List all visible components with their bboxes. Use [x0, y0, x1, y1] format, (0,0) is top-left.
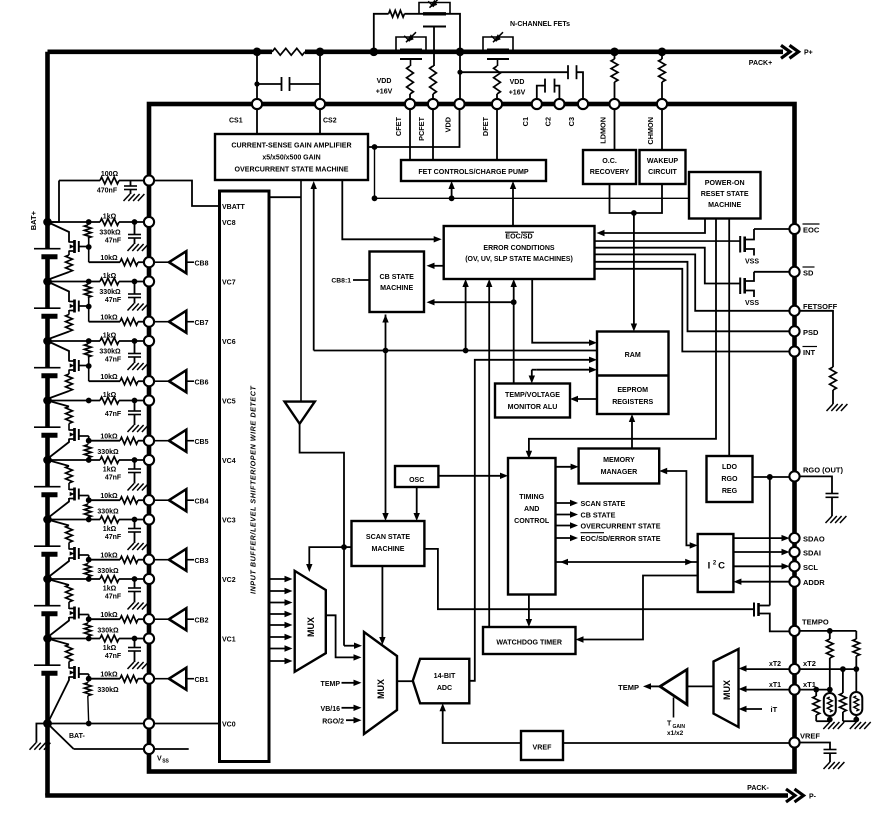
svg-text:VBATT: VBATT — [222, 204, 246, 211]
ground cap cell2 — [128, 603, 149, 610]
svg-text:47nF: 47nF — [105, 411, 122, 418]
wire ADC output — [469, 676, 475, 681]
transistor balance FET cell1 — [69, 666, 89, 679]
wire EOC/SD vertical a — [462, 279, 468, 351]
wire timing output OVERCURRENT STATE — [556, 522, 579, 528]
label 47n cell3 — [105, 534, 122, 541]
wire FET source cell3 — [49, 558, 70, 578]
svg-text:330kΩ: 330kΩ — [97, 509, 119, 516]
label 330k cell7 — [99, 289, 121, 296]
thermistor xT1 — [824, 690, 836, 722]
wire FET1 left to resistor — [404, 13, 423, 15]
label PACK+ — [749, 60, 772, 67]
transistor balance FET cell2 — [69, 607, 89, 620]
wire VDD pin to amp — [368, 109, 460, 147]
pin PSD — [789, 326, 799, 336]
battery cell2 — [34, 606, 61, 614]
svg-text:47nF: 47nF — [105, 297, 122, 304]
transistor balance FET cell6 — [69, 359, 89, 372]
resistor source cell1 — [66, 645, 73, 669]
buffer CB7 triangle — [154, 311, 195, 333]
svg-text:MEMORY: MEMORY — [603, 456, 635, 464]
pin VC0 — [144, 718, 154, 728]
wire CFET pin to fet-controls — [409, 109, 411, 160]
wire CHMON to wakeup — [661, 109, 663, 150]
svg-text:330kΩ: 330kΩ — [97, 687, 119, 694]
svg-text:1kΩ: 1kΩ — [103, 586, 117, 593]
label 47n cell4 — [105, 475, 122, 482]
label P+ — [804, 50, 813, 57]
resistor 330k cell5 — [84, 441, 91, 460]
wire VC4 row — [48, 459, 150, 461]
node junction CS2/rail — [316, 48, 325, 57]
resistor 10k cell8 — [120, 259, 138, 266]
wire TEMP out — [643, 683, 660, 689]
svg-text:+16V: +16V — [509, 90, 526, 97]
label CB6 — [195, 379, 209, 386]
svg-text:SCL: SCL — [803, 563, 818, 572]
node junction VDD/rail — [456, 48, 465, 57]
wire POR to EOC/SD (arrow in) — [597, 219, 706, 237]
svg-text:PACK-: PACK- — [747, 785, 769, 792]
wire amp to EOC/SD — [342, 180, 441, 243]
svg-text:1kΩ: 1kΩ — [103, 392, 117, 399]
mux MUX1 — [295, 571, 326, 672]
wire CB2 row — [89, 618, 149, 620]
pin TEMPO — [789, 626, 799, 636]
wire SD to gate — [595, 248, 741, 284]
svg-text:WAKEUP: WAKEUP — [647, 157, 678, 165]
label C1 (rotated) — [521, 117, 530, 126]
resistor current-sense on PACK+ rail — [272, 48, 305, 55]
svg-text:CIRCUIT: CIRCUIT — [648, 168, 677, 176]
wire TEMP into MUX2 — [342, 680, 362, 686]
ground cap cell3 — [128, 543, 149, 550]
ground cap cell7 — [128, 304, 149, 311]
label BAT- — [69, 733, 85, 740]
wire INT line — [595, 269, 790, 352]
transistor FET3 (DFET) — [483, 32, 513, 66]
capacitor C3 — [460, 65, 583, 104]
resistor CHMON pull-up — [659, 52, 666, 104]
svg-text:VC7: VC7 — [222, 279, 236, 286]
label SD pin — [803, 267, 815, 277]
svg-text:10kΩ: 10kΩ — [100, 493, 118, 500]
wire MUX2 to ADC — [397, 680, 413, 682]
label CB4 — [195, 498, 209, 505]
wire VBATT pin to inner box — [154, 181, 220, 207]
wire scan to MUX2 top — [379, 566, 385, 645]
wire VC3 row — [48, 519, 150, 521]
svg-text:330kΩ: 330kΩ — [99, 349, 121, 356]
resistor xT2 ext — [840, 669, 847, 721]
capacitor 47n cell5 — [128, 401, 141, 426]
buffer CB6 triangle — [154, 370, 195, 392]
resistor LDMON pull-up — [611, 52, 618, 104]
svg-text:CB5: CB5 — [195, 439, 209, 446]
label 47n cell1 — [105, 653, 122, 660]
adc 14-bit ADC — [413, 659, 470, 704]
ground cap cell8 — [128, 244, 149, 251]
resistor source cell8 — [49, 251, 73, 280]
resistor 10k cell6 — [120, 378, 138, 385]
resistor source cell3 — [66, 526, 73, 550]
wire FET drain cell3 — [48, 520, 70, 526]
wire buffer to scan/mux — [300, 424, 362, 649]
svg-text:VC8: VC8 — [222, 220, 236, 227]
svg-text:RECOVERY: RECOVERY — [590, 168, 630, 176]
svg-text:RGO: RGO — [721, 475, 738, 483]
svg-text:MUX: MUX — [376, 679, 386, 699]
label 10k cell3 — [100, 553, 118, 560]
wire DFET pin to fet-controls — [496, 109, 498, 160]
block wakeup circuit — [640, 150, 686, 184]
resistor 10k cell2 — [120, 616, 138, 623]
svg-text:1kΩ: 1kΩ — [103, 645, 117, 652]
label MUX2 (rotated) — [376, 679, 386, 699]
buffer VBATT triangle — [285, 402, 315, 424]
svg-text:1kΩ: 1kΩ — [103, 214, 117, 221]
pin SDAO — [789, 533, 799, 543]
wire EOC/SD to fet-controls — [510, 181, 516, 226]
resistor CFET gate — [407, 66, 414, 104]
svg-text:10kΩ: 10kΩ — [100, 672, 118, 679]
wire VBATT filter branch — [48, 181, 150, 223]
svg-text:ERROR CONDITIONS: ERROR CONDITIONS — [483, 245, 555, 252]
svg-text:EOC/SD: EOC/SD — [505, 233, 532, 241]
pin LDMON — [609, 99, 619, 109]
pin VC5 — [144, 395, 154, 405]
node VC8 dots — [86, 219, 138, 225]
svg-text:CS1: CS1 — [229, 118, 243, 125]
label VC1 inner — [222, 636, 236, 643]
wire CB7 row — [89, 307, 149, 322]
label 330k cell5 — [97, 449, 119, 456]
svg-text:CB STATE: CB STATE — [379, 273, 414, 281]
resistor 330k cell3 — [84, 560, 91, 579]
svg-text:xT1: xT1 — [803, 680, 816, 689]
svg-text:I: I — [708, 561, 711, 572]
svg-text:CB4: CB4 — [195, 498, 209, 505]
wire FET drain cell2 — [48, 579, 70, 585]
svg-text:FETSOFF: FETSOFF — [803, 302, 838, 311]
transistor FET1 charge-pump FET — [419, 0, 450, 26]
wire PACK+ top rail (thick) — [48, 49, 784, 54]
label PSD pin — [803, 328, 819, 337]
pin CB2 — [144, 614, 154, 624]
wire OSC to timing — [438, 473, 508, 479]
resistor 10k cell5 — [120, 437, 138, 444]
svg-text:14-BIT: 14-BIT — [434, 672, 456, 680]
node BAT- junction — [43, 719, 92, 728]
label CB8:1 — [331, 278, 351, 285]
node VC1 dots — [86, 636, 138, 642]
wire OC/wakeup join — [610, 184, 663, 213]
svg-text:RAM: RAM — [625, 351, 641, 359]
wire RAM line4 to ALU — [529, 367, 597, 384]
svg-text:N-CHANNEL FETs: N-CHANNEL FETs — [510, 21, 570, 28]
pin VREF — [789, 737, 799, 747]
resistor 100ohm — [100, 177, 119, 184]
wire POR to LDO — [728, 219, 730, 457]
ground cap cell1 — [128, 662, 149, 669]
wire BAT- to VSS — [48, 724, 189, 750]
wire EOC/SD to RAM line1 — [532, 279, 597, 346]
IC boundary box — [149, 104, 795, 772]
svg-text:47nF: 47nF — [105, 238, 122, 245]
wire EOC/SD vertical c (ALU) — [511, 279, 517, 384]
svg-text:RGO (OUT): RGO (OUT) — [803, 465, 843, 474]
block OSC — [395, 466, 438, 487]
svg-text:LDO: LDO — [722, 463, 737, 471]
svg-text:xT1: xT1 — [769, 682, 781, 689]
battery cell5 — [34, 427, 61, 435]
svg-text:VC1: VC1 — [222, 636, 236, 643]
svg-text:EOC/SD/ERROR STATE: EOC/SD/ERROR STATE — [581, 534, 661, 543]
node gate junction cell5 — [86, 438, 92, 444]
label VC7 inner — [222, 279, 236, 286]
wire timing to memory — [556, 464, 579, 470]
svg-text:SDAO: SDAO — [803, 535, 825, 544]
node gate junction cell8 — [86, 244, 92, 250]
wire VC1 row — [48, 638, 150, 640]
capacitor 47n cell7 — [128, 282, 141, 304]
svg-text:INT: INT — [803, 348, 816, 357]
resistor FET1 gate-drive — [389, 10, 405, 17]
label 1k cell1 — [103, 645, 117, 652]
resistor 10k cell3 — [120, 556, 138, 563]
svg-text:MANAGER: MANAGER — [601, 468, 638, 476]
pin CB7 — [144, 317, 154, 327]
svg-text:47nF: 47nF — [105, 653, 122, 660]
pin VC8 — [144, 217, 154, 227]
label EOC/SD/ERROR STATE — [581, 534, 661, 543]
node BAT junction VC6 — [43, 337, 52, 346]
wire VBATT to amp — [269, 196, 301, 198]
svg-text:CB6: CB6 — [195, 379, 209, 386]
buffer CB4 triangle — [154, 489, 195, 511]
wire VREF to pin — [563, 742, 790, 744]
label CS2 — [323, 118, 337, 125]
capacitor across sense resistor — [254, 77, 320, 91]
pin SD — [789, 267, 799, 277]
battery cell1 — [34, 665, 61, 673]
resistor 1k cell3 — [100, 516, 119, 523]
wire CS1 column — [256, 52, 258, 104]
label VDD (rotated) — [444, 117, 453, 132]
buffer CB5 triangle — [154, 430, 195, 452]
svg-text:PACK+: PACK+ — [749, 60, 772, 67]
resistor source cell2 — [66, 585, 73, 609]
block EOC/SD error conditions — [444, 226, 595, 279]
label DFET (rotated) — [481, 116, 490, 136]
svg-text:O.C.: O.C. — [602, 157, 617, 165]
svg-text:ADC: ADC — [437, 684, 452, 692]
svg-text:VC2: VC2 — [222, 577, 236, 584]
svg-text:iT: iT — [771, 705, 778, 714]
label 10k cell1 — [100, 672, 118, 679]
label SCL pin — [803, 563, 818, 572]
label 1k cell3 — [103, 526, 117, 533]
label TEMP mux2 — [321, 681, 341, 688]
resistor 1k cell7 — [100, 278, 119, 285]
block O.C. recovery — [583, 150, 636, 184]
wire CS2 pin to amp — [319, 109, 321, 134]
label N-CHANNEL FETs — [510, 21, 570, 28]
svg-text:ADDR: ADDR — [803, 578, 825, 587]
svg-text:VDD: VDD — [444, 117, 453, 132]
svg-text:EEPROM: EEPROM — [617, 386, 648, 394]
svg-text:470nF: 470nF — [97, 188, 118, 195]
node BAT junction VC5 — [43, 396, 52, 405]
buffer CB2 triangle — [154, 608, 195, 630]
label input buffer (rotated) — [249, 386, 258, 594]
label 1k cell2 — [103, 586, 117, 593]
battery cell3 — [34, 546, 61, 554]
node VC4 dots — [86, 457, 138, 463]
node BAT junction VC7 — [43, 277, 52, 286]
label iT — [771, 705, 778, 714]
label CB STATE — [581, 510, 616, 519]
resistor source cell5 — [66, 407, 73, 431]
svg-text:SS: SS — [162, 759, 169, 765]
label VC0 inner — [222, 721, 236, 728]
wire FET drain cell7 — [48, 282, 70, 303]
label CHMON (rotated) — [646, 117, 655, 145]
svg-text:TEMP/VOLTAGE: TEMP/VOLTAGE — [505, 391, 560, 399]
label 330k cell8 — [99, 230, 121, 237]
capacitor RGO ext — [799, 476, 838, 516]
resistor 330k cell7 — [84, 284, 91, 307]
pin CS1 — [252, 99, 262, 109]
buffer CB1 triangle — [154, 668, 195, 690]
pin VC2 — [144, 574, 154, 584]
svg-text:10kΩ: 10kΩ — [100, 434, 118, 441]
label 330k cell4 — [97, 509, 119, 516]
label TGAIN — [667, 721, 685, 738]
ground cap cell4 — [128, 484, 149, 491]
resistor source cell6 — [49, 370, 73, 399]
thermistor xT2 — [850, 669, 862, 721]
label P- — [809, 794, 817, 801]
resistor 1k cell2 — [100, 576, 119, 583]
label VB/16 — [321, 706, 341, 713]
wire FET source cell5 — [49, 439, 70, 459]
wire LDMON to OC recovery — [614, 109, 616, 150]
svg-text:VC4: VC4 — [222, 458, 236, 465]
svg-text:TEMP: TEMP — [321, 681, 341, 688]
wire iT to MUX3 — [739, 706, 763, 712]
svg-text:VC6: VC6 — [222, 339, 236, 346]
resistor 330k cell2 — [84, 619, 91, 638]
wire EOC/SD vertical b (watchdog) — [486, 279, 492, 627]
svg-text:CB3: CB3 — [195, 558, 209, 565]
label PCFET (rotated) — [417, 116, 426, 140]
transistor balance FET cell4 — [69, 488, 89, 501]
wire TEMPO ext — [799, 628, 856, 634]
wire resistor to rail — [374, 14, 389, 52]
pin CHMON — [657, 99, 667, 109]
label xT1 pin — [803, 680, 816, 689]
wire POR to TIMING — [526, 219, 716, 459]
wire OSC to scan — [414, 487, 420, 521]
svg-text:DFET: DFET — [481, 116, 490, 136]
wire CB4 row — [89, 499, 149, 501]
pin FETSOFF — [789, 306, 799, 316]
connector P+ double arrow — [781, 45, 799, 58]
wire PACK- bottom rail (thick) — [45, 793, 788, 798]
svg-text:VC5: VC5 — [222, 398, 236, 405]
wire scan bus to RAM line2 — [311, 181, 598, 353]
label 1k cell8 — [103, 214, 117, 221]
svg-text:OSC: OSC — [409, 477, 424, 484]
wire PCFET resistor to pin — [433, 66, 434, 104]
wire VB/16 into MUX2 — [342, 705, 362, 711]
svg-text:CHMON: CHMON — [646, 117, 655, 145]
svg-text:PSD: PSD — [803, 328, 819, 337]
svg-text:BAT+: BAT+ — [29, 210, 38, 230]
wire CB-state lower feed — [427, 299, 517, 305]
label 100ohm — [101, 171, 119, 178]
label 10k cell6 — [100, 374, 118, 381]
block scan state machine — [352, 521, 425, 566]
pin CS2 — [315, 99, 325, 109]
svg-text:SCAN STATE: SCAN STATE — [581, 499, 626, 508]
pin CB1 — [144, 674, 154, 684]
node junction CHMON/rail — [658, 48, 667, 57]
capacitor VREF ext — [799, 743, 836, 763]
node VC7 dots — [86, 279, 138, 285]
wire CS1 pin to amp — [256, 109, 258, 134]
capacitor 470nF — [124, 181, 137, 195]
label 1k cell4 — [103, 467, 117, 474]
pin VC4 — [144, 455, 154, 465]
label PACK- — [747, 785, 769, 792]
svg-text:VC3: VC3 — [222, 517, 236, 524]
node gate junction cell3 — [86, 557, 92, 563]
wire CB8 row — [89, 247, 149, 262]
wire memory-I2C link — [659, 468, 698, 549]
block input buffer/level shifter — [220, 191, 270, 762]
label FETSOFF pin — [803, 302, 838, 311]
wire FET drain cell5 — [48, 401, 70, 407]
svg-text:47nF: 47nF — [105, 594, 122, 601]
wire memory to EEPROM — [629, 414, 635, 449]
pin VC1 — [144, 633, 154, 643]
pin C3 — [578, 99, 588, 109]
label VC3 inner — [222, 517, 236, 524]
wire CB1 row — [89, 678, 149, 680]
label 330k cell3 — [97, 568, 119, 575]
label CFET (rotated) — [394, 116, 403, 136]
svg-text:x1/x2: x1/x2 — [667, 730, 684, 737]
block temp/voltage monitor ALU — [495, 384, 570, 418]
wire FET source cell1 — [49, 677, 70, 722]
label 10k cell7 — [100, 315, 118, 322]
svg-text:+16V: +16V — [376, 89, 393, 96]
svg-text:T: T — [667, 721, 672, 728]
mux MUX3 temp — [714, 649, 739, 727]
wire VDD to POR (long) — [372, 144, 689, 201]
battery cell8 — [34, 249, 61, 257]
svg-text:xT2: xT2 — [803, 659, 816, 668]
label xT1 inner — [769, 682, 781, 689]
wire xT1 to MUX3 — [739, 686, 790, 692]
resistor source cell7 — [49, 310, 73, 339]
svg-text:1kΩ: 1kΩ — [103, 526, 117, 533]
svg-text:330kΩ: 330kΩ — [97, 568, 119, 575]
label VC5 inner — [222, 398, 236, 405]
